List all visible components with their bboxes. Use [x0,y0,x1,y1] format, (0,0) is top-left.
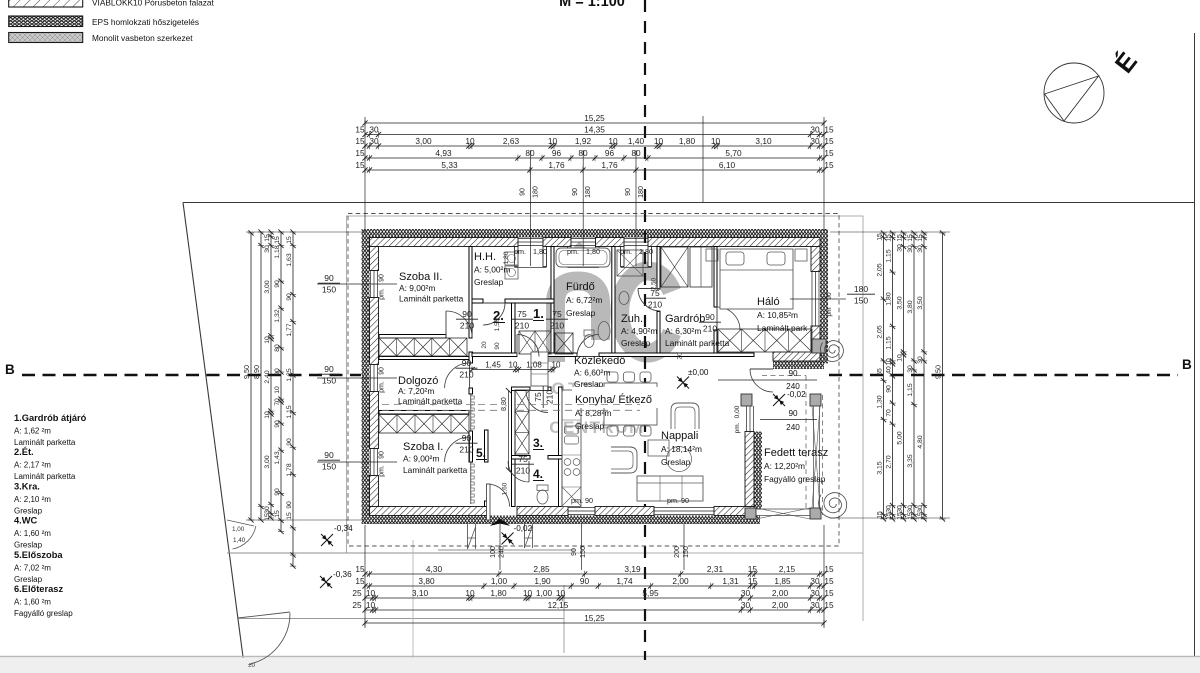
svg-text:1,60: 1,60 [502,482,509,495]
svg-text:Gardrób: Gardrób [665,313,705,325]
svg-text:1,40: 1,40 [233,537,246,544]
svg-text:80: 80 [578,148,588,158]
svg-text:75: 75 [518,454,528,464]
svg-text:5,00: 5,00 [897,431,904,444]
svg-text:90: 90 [572,188,579,196]
svg-text:80: 80 [525,148,535,158]
svg-text:2,40: 2,40 [264,370,271,383]
svg-text:90: 90 [274,420,281,428]
EPS insulation nappali east band [754,432,762,510]
svg-text:A: 2,17 ²m: A: 2,17 ²m [14,461,51,470]
window top 3 glazing [624,238,648,240]
svg-text:Szoba II.: Szoba II. [399,271,442,283]
kitchen stove circles [564,459,571,466]
svg-text:4,80: 4,80 [917,435,924,448]
svg-text:12,15: 12,15 [548,600,569,610]
svg-text:15: 15 [264,234,271,242]
svg-text:A: 1,62 ²m: A: 1,62 ²m [14,427,51,436]
svg-text:96: 96 [605,148,615,158]
road band bottom [0,658,1200,673]
svg-text:90: 90 [379,367,386,375]
terrace bracing X bottom [756,508,810,519]
svg-text:A: 4,90²m: A: 4,90²m [621,326,657,336]
svg-text:15: 15 [748,564,758,574]
kitchen fridge [562,487,581,506]
interior wall eloszoba-kra vertical [512,387,516,507]
svg-text:180: 180 [585,186,592,198]
svg-text:1,31: 1,31 [722,576,739,586]
section line B-B horizontal dashed [22,374,361,376]
svg-text:10: 10 [509,360,518,369]
svg-text:90: 90 [705,312,715,322]
svg-text:30: 30 [810,576,820,586]
bottom dim extension lines [364,525,366,628]
right dim extension lines [830,231,950,233]
svg-text:150: 150 [580,546,587,558]
door dim eloszoba 75/210 rotated [533,386,555,408]
svg-text:30: 30 [810,125,820,135]
elevation marker -0.34 site [321,534,333,546]
interior wall zuh-gardrob vertical a [657,247,660,290]
svg-text:10: 10 [654,136,664,146]
svg-text:A: 2,10 ²m: A: 2,10 ²m [14,495,51,504]
svg-text:1,80: 1,80 [533,247,547,256]
left dim col window spacing [292,232,294,566]
interior wall kra-konyha vertical [559,387,563,507]
svg-text:15: 15 [355,160,365,170]
svg-text:90: 90 [324,364,334,374]
terrace floor edge bottom lines [756,508,810,510]
door terrace from halo arc [750,369,773,392]
interior wall szoba2 south horizontal [379,335,446,339]
toilet wc room4 [537,485,548,491]
window bottom nappali glazing [654,507,714,509]
right dim col d [913,233,915,519]
exterior wall halo bottom [773,352,820,361]
svg-text:1,15: 1,15 [286,405,293,418]
interior wall corridor north horizontal segments [472,353,517,357]
sidewalk gray line lower [238,618,564,620]
svg-text:A: 7,02 ²m: A: 7,02 ²m [14,563,51,572]
right dim col c [903,233,905,519]
right dim col total 9,50 [942,233,944,519]
svg-text:25: 25 [352,600,362,610]
svg-text:A: 5,00²m: A: 5,00²m [474,265,510,275]
elevation marker -0.02 entrance [502,533,514,545]
interior wall room2-room1 vertical [512,303,516,353]
sink zuh [619,292,629,305]
svg-text:1,76: 1,76 [601,160,618,170]
interior wall dolgozo north horizontal [379,357,469,360]
svg-text:1,25: 1,25 [286,368,293,381]
svg-text:15: 15 [824,600,834,610]
svg-text:1,80: 1,80 [586,247,600,256]
svg-text:5,70: 5,70 [725,148,742,158]
interior wall gardrob-halo vertical [714,247,717,308]
svg-text:9,50: 9,50 [242,365,251,379]
legend swatch EPS insulation [9,16,83,27]
svg-text:3,35: 3,35 [907,454,914,467]
svg-text:VIABLOKK10 Pórusbeton falazat: VIABLOKK10 Pórusbeton falazat [92,0,214,8]
svg-text:2,70: 2,70 [886,455,893,468]
svg-text:90: 90 [324,450,334,460]
svg-text:2,50: 2,50 [651,277,658,290]
entrance porch step rails [467,524,469,549]
svg-text:1.: 1. [533,306,544,321]
svg-text:90: 90 [379,274,386,282]
svg-text:15: 15 [824,160,834,170]
svg-text:30: 30 [897,244,904,252]
elevation marker 0.00 kozlekedo [677,377,689,389]
site gray vertical line B [563,585,565,653]
coffee table nappali [648,440,669,456]
svg-text:240: 240 [499,546,506,558]
svg-text:30: 30 [741,600,751,610]
svg-text:5,33: 5,33 [441,160,458,170]
svg-text:-0,02: -0,02 [514,524,533,533]
site gray vertical line A [412,540,414,660]
svg-text:pm.: pm. [379,288,386,300]
svg-text:1,90: 1,90 [534,576,551,586]
svg-text:90: 90 [788,369,798,378]
svg-text:15: 15 [907,234,914,242]
svg-text:±0,00: ±0,00 [688,368,709,377]
svg-text:1,80: 1,80 [679,136,696,146]
svg-text:3.: 3. [533,436,543,450]
bed pillows [726,252,744,265]
svg-text:Szoba I.: Szoba I. [403,441,443,453]
washer dryer hh [505,252,518,265]
svg-text:Laminált parketta: Laminált parketta [665,338,730,348]
svg-text:96: 96 [552,148,562,158]
svg-text:8,90: 8,90 [252,365,261,379]
property boundary diagonal left [183,203,245,673]
wardrobe kra column [515,390,529,454]
interior wall kra north horizontal [512,387,531,391]
bottom dim row total 15,25 [365,622,824,624]
svg-text:15: 15 [286,236,293,244]
EPS insulation halo bottom wall band [773,361,824,369]
svg-text:240: 240 [786,382,800,391]
svg-text:Greslap: Greslap [575,421,605,431]
svg-text:Közlekedő: Közlekedő [574,355,625,367]
svg-text:30: 30 [369,136,379,146]
elevation marker -0.36 site [320,576,332,588]
exterior wall left segment 1 [370,247,379,271]
exterior wall left segment 2 [370,298,379,365]
window top 2 glazing [571,238,596,240]
svg-text:3,00: 3,00 [415,136,432,146]
left dim col 8,90 [260,232,262,520]
window niche stubs top windows [515,247,519,267]
svg-text:1,80: 1,80 [639,247,653,256]
door hh arc [483,303,505,325]
svg-text:30: 30 [264,245,271,253]
shower zuh [617,250,643,276]
svg-text:210: 210 [703,324,717,334]
svg-text:15: 15 [824,564,834,574]
exterior wall bottom segment 3 [595,507,654,516]
svg-text:210: 210 [516,466,530,476]
toilet furdo [584,330,594,336]
svg-text:15: 15 [824,588,834,598]
svg-text:3,80: 3,80 [907,300,914,313]
svg-text:30: 30 [741,588,751,598]
svg-text:15: 15 [355,576,365,586]
svg-text:90: 90 [462,309,472,319]
svg-text:1,50: 1,50 [494,318,501,331]
svg-text:2,85: 2,85 [533,564,550,574]
svg-text:Fürdő: Fürdő [566,281,595,293]
svg-text:90: 90 [462,358,472,368]
svg-text:1,43: 1,43 [274,451,281,464]
svg-text:90: 90 [788,409,798,418]
exterior wall bottom segment 2 [517,507,568,516]
svg-text:30: 30 [907,365,914,373]
left dim col 9,50 [250,233,252,520]
svg-text:20: 20 [481,341,488,349]
door furdo arc [577,335,599,357]
sink furdo [598,322,610,341]
top dim row windows [365,157,824,159]
svg-text:1,92: 1,92 [575,136,592,146]
interior wall dolgozo south horizontal [379,411,469,415]
window right halo glazing [811,272,813,327]
svg-text:0,00: 0,00 [734,405,741,418]
svg-text:210: 210 [459,445,473,455]
svg-text:10: 10 [556,588,566,598]
dining chairs bottom [607,426,618,436]
svg-text:pm: pm [826,307,833,316]
svg-text:-0,36: -0,36 [333,570,352,579]
window left 1 glazing [370,271,372,298]
svg-text:90: 90 [520,188,527,196]
svg-text:Háló: Háló [757,296,780,308]
svg-text:A: 6,30²m: A: 6,30²m [665,326,701,336]
bottom dim row C [365,597,824,599]
svg-text:1,77: 1,77 [286,323,293,336]
svg-text:15: 15 [824,125,834,135]
svg-text:Zuh.: Zuh. [621,313,643,325]
svg-text:Greslap: Greslap [474,277,504,287]
svg-text:15: 15 [907,512,914,520]
svg-text:210: 210 [515,321,529,331]
svg-text:2,05: 2,05 [877,325,884,338]
svg-text:90: 90 [379,451,386,459]
svg-text:Nappali: Nappali [661,430,698,442]
svg-text:9,50: 9,50 [934,365,943,379]
svg-text:10: 10 [366,588,376,598]
top dim row 14,35 [365,134,824,136]
svg-text:10: 10 [711,136,721,146]
svg-text:pm.: pm. [514,247,526,256]
svg-text:3,15: 3,15 [877,461,884,474]
plot inner thin frame [347,216,864,553]
bottom dim row B [365,585,824,587]
svg-text:2,31: 2,31 [707,564,724,574]
svg-text:1,80: 1,80 [886,292,893,305]
svg-text:30: 30 [917,245,924,253]
svg-text:6.Előterasz: 6.Előterasz [14,584,63,594]
exterior wall left segment 3 [370,392,379,449]
svg-text:180: 180 [638,186,645,198]
svg-text:1,30: 1,30 [877,395,884,408]
svg-text:10: 10 [465,588,475,598]
svg-text:15,25: 15,25 [584,614,605,623]
partition teeth line [470,394,472,431]
gate 1 small with arc [227,520,254,526]
svg-text:15: 15 [355,125,365,135]
svg-text:90: 90 [494,342,501,350]
svg-text:pm.: pm. [734,422,741,433]
svg-text:A: 6,72²m: A: 6,72²m [566,295,602,305]
svg-text:90: 90 [274,280,281,288]
beam dashed lines over rooms [382,404,505,406]
property boundary top horizontal [183,202,1195,204]
door entrance arc [487,484,510,507]
svg-text:1,45: 1,45 [485,360,501,369]
svg-text:A: 9,00²m: A: 9,00²m [399,283,435,293]
svg-text:1,08: 1,08 [526,360,542,369]
svg-text:15: 15 [917,512,924,520]
exterior wall top segment 2 [543,238,571,247]
svg-text:3,80: 3,80 [418,576,435,586]
svg-text:6,10: 6,10 [719,160,736,170]
exterior wall top segment 1 [370,238,519,247]
svg-text:1,74: 1,74 [616,576,633,586]
svg-text:15: 15 [877,233,884,241]
svg-text:1,18: 1,18 [274,245,281,258]
interior wall szoba2-hh vertical [469,247,472,339]
svg-text:210: 210 [460,321,474,331]
svg-text:90: 90 [286,293,293,301]
exterior wall bottom segment 4 [714,507,754,516]
svg-text:4.: 4. [533,467,543,481]
armchair nappali lower [611,447,637,473]
svg-text:15: 15 [355,136,365,146]
svg-text:30: 30 [917,505,924,513]
svg-text:5.Előszoba: 5.Előszoba [14,550,63,560]
right dim col b [892,233,894,519]
exterior wall nappali east [745,432,754,507]
svg-text:90: 90 [274,368,281,376]
wardrobe band szoba1 top [379,415,469,434]
svg-text:3,10: 3,10 [755,136,772,146]
svg-text:A: 12,20²m: A: 12,20²m [764,461,805,471]
svg-text:15,25: 15,25 [584,114,605,123]
svg-text:1,15: 1,15 [886,249,893,262]
nightstand left [706,249,718,261]
svg-text:A: 1,60 ²m: A: 1,60 ²m [14,598,51,607]
interior wall wc north horizontal [512,456,531,460]
svg-text:1,80: 1,80 [490,588,507,598]
svg-text:90: 90 [826,292,833,300]
right dim col e [923,233,925,519]
svg-text:30: 30 [369,125,379,135]
door wc arc [508,461,529,482]
property boundary right vertical [1194,33,1196,656]
svg-text:2,00: 2,00 [772,600,789,610]
svg-text:30: 30 [917,356,924,364]
svg-text:4,30: 4,30 [426,564,443,574]
window bottom wc glazing [568,507,595,509]
svg-text:1,63: 1,63 [286,253,293,266]
svg-text:1,78: 1,78 [286,463,293,476]
svg-text:150: 150 [322,376,336,386]
svg-text:1,32: 1,32 [274,309,281,322]
corridor small dim row 1,45 10 1,08 10 [472,369,554,371]
svg-text:90: 90 [324,273,334,283]
svg-text:15: 15 [274,236,281,244]
wardrobe gardrob room [661,247,688,287]
partition dolgozo-eloszoba with door stubs [469,352,473,363]
svg-text:150: 150 [683,546,690,558]
svg-text:10: 10 [264,336,271,344]
concrete block halo wall end [812,339,826,353]
kitchen sink [565,426,579,434]
svg-text:70: 70 [274,398,281,406]
svg-text:90: 90 [462,433,472,443]
svg-text:Laminált parketta: Laminált parketta [403,465,468,475]
EPS insulation left band [362,238,370,517]
svg-text:A: 1,60 ²m: A: 1,60 ²m [14,529,51,538]
terrace bracing X right [812,406,820,508]
window top 1 glazing [518,238,543,240]
svg-text:15: 15 [264,513,271,521]
svg-text:2,00: 2,00 [772,588,789,598]
svg-text:Greslap: Greslap [661,457,691,467]
svg-text:2,63: 2,63 [503,136,520,146]
svg-text:15: 15 [274,510,281,518]
EPS insulation top band [362,229,829,238]
left dim col openings [280,232,282,532]
svg-text:10: 10 [886,358,893,366]
svg-text:10: 10 [366,600,376,610]
svg-text:80: 80 [274,344,281,352]
svg-text:1.Gardrób átjáró: 1.Gardrób átjáró [14,413,87,423]
svg-text:pm.: pm. [379,381,386,393]
road edge line bottom [0,656,1200,658]
north arrow circle with triangle [1044,63,1104,123]
exterior wall top segment 4 [648,238,820,247]
terrace post bottom-right [810,508,821,519]
porch edge gray line [438,549,575,551]
svg-text:3,10: 3,10 [412,588,429,598]
svg-text:A: 9,00²m: A: 9,00²m [403,454,439,464]
interior wall room1-furdo vertical lower [551,303,554,353]
svg-text:240: 240 [786,423,800,432]
svg-text:210: 210 [459,370,473,380]
svg-text:Laminált park: Laminált park [757,323,808,333]
exterior wall left segment 4 [370,476,379,507]
svg-text:10: 10 [548,136,558,146]
svg-text:15: 15 [824,148,834,158]
interior wall hh south horizontal [472,299,483,303]
svg-text:1,40: 1,40 [628,136,645,146]
svg-text:1,76: 1,76 [548,160,565,170]
svg-text:30: 30 [810,136,820,146]
svg-text:150: 150 [854,296,868,306]
svg-text:90: 90 [274,488,281,496]
svg-text:3,50: 3,50 [917,296,924,309]
svg-text:210: 210 [648,300,662,310]
exterior wall right segment 2 [811,326,820,361]
top dim extension lines [364,117,366,232]
svg-text:A: 6,60²m: A: 6,60²m [574,368,610,378]
svg-text:150: 150 [322,462,336,472]
svg-text:30: 30 [810,600,820,610]
left dim col rooms [270,232,272,518]
